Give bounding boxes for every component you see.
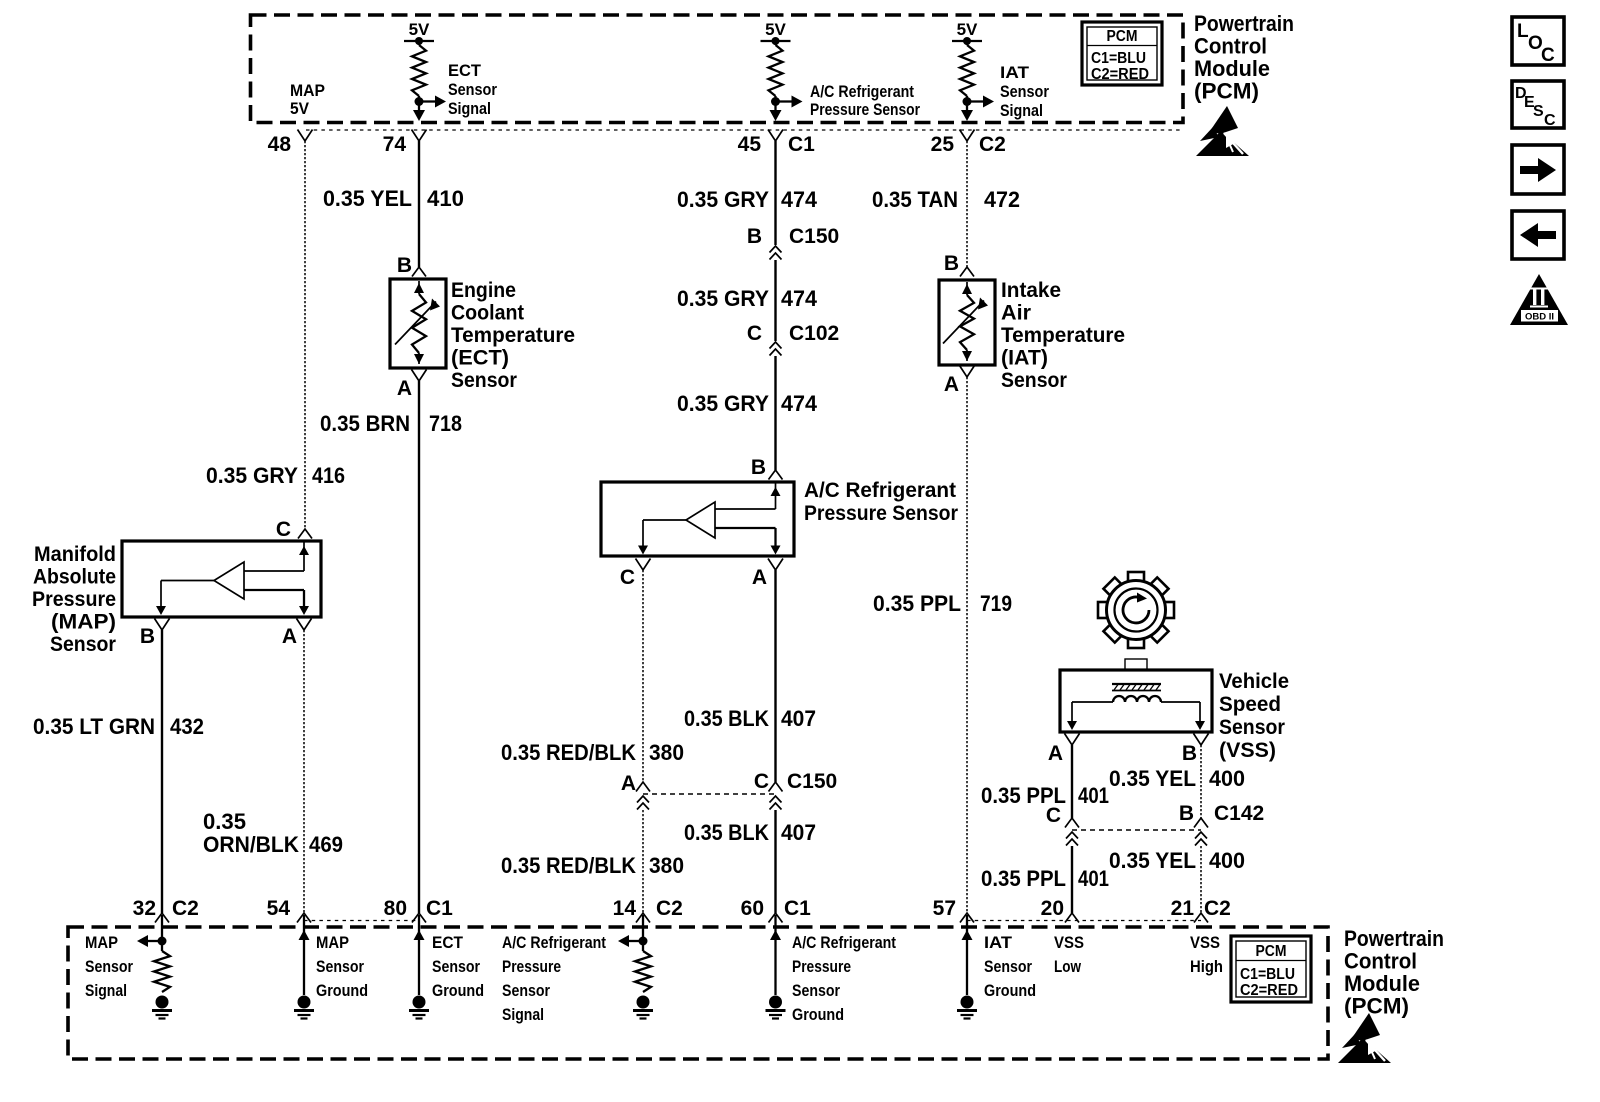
svg-text:Vehicle: Vehicle bbox=[1219, 670, 1289, 693]
svg-text:Module: Module bbox=[1194, 56, 1270, 81]
svg-text:0.35 GRY: 0.35 GRY bbox=[677, 187, 769, 212]
svg-text:C150: C150 bbox=[789, 225, 839, 248]
svg-text:474: 474 bbox=[781, 286, 818, 311]
label 0.35 GRY 416 bbox=[206, 463, 345, 488]
pin 60 C1 A/C ground bbox=[741, 897, 812, 923]
svg-text:C2: C2 bbox=[172, 897, 199, 920]
label ECT Sensor Ground bbox=[432, 934, 484, 1000]
svg-text:B: B bbox=[140, 625, 155, 648]
svg-text:Signal: Signal bbox=[448, 100, 491, 118]
label 0.35 PPL 401 lower bbox=[981, 866, 1109, 891]
bottom PCM module box (dashed) bbox=[68, 927, 1328, 1059]
svg-text:A/C Refrigerant: A/C Refrigerant bbox=[502, 934, 606, 952]
svg-text:(PCM): (PCM) bbox=[1194, 79, 1259, 104]
svg-text:A: A bbox=[621, 772, 636, 795]
wire 472 TAN IAT signal bbox=[966, 141, 968, 267]
svg-text:474: 474 bbox=[781, 391, 818, 416]
svg-text:Air: Air bbox=[1001, 302, 1031, 325]
wire 400 YEL upper bbox=[1200, 745, 1202, 818]
svg-text:C2=RED: C2=RED bbox=[1091, 66, 1149, 83]
wire 401 PPL lower bbox=[1071, 846, 1073, 913]
svg-text:400: 400 bbox=[1209, 848, 1245, 873]
label 0.35 GRY 474 middle bbox=[677, 286, 818, 311]
label Intake Air Temperature IAT Sensor bbox=[1001, 279, 1125, 392]
svg-text:MAP: MAP bbox=[85, 934, 118, 952]
svg-text:C1=BLU: C1=BLU bbox=[1091, 50, 1146, 67]
svg-text:469: 469 bbox=[309, 832, 343, 857]
label A/C Refrigerant Pressure Sensor bbox=[810, 83, 920, 119]
wire 474 GRY segment 2 bbox=[774, 260, 776, 341]
wire 474 GRY segment 1 bbox=[774, 141, 776, 245]
node A MAP connector bbox=[282, 619, 312, 649]
thermistor ECT bbox=[395, 281, 440, 364]
svg-text:C150: C150 bbox=[787, 770, 837, 793]
svg-text:(ECT): (ECT) bbox=[451, 347, 509, 370]
svg-text:A/C Refrigerant: A/C Refrigerant bbox=[804, 479, 956, 502]
svg-text:0.35 RED/BLK: 0.35 RED/BLK bbox=[501, 853, 636, 878]
VSS reluctor gear wheel bbox=[1098, 572, 1174, 648]
svg-text:Low: Low bbox=[1054, 958, 1081, 976]
svg-text:32: 32 bbox=[133, 897, 156, 920]
label 0.35 PPL 401 upper bbox=[981, 783, 1109, 808]
vehicle speed sensor box bbox=[1060, 670, 1212, 732]
svg-text:(IAT): (IAT) bbox=[1001, 347, 1048, 370]
label Engine Coolant Temperature ECT Sensor bbox=[451, 279, 575, 392]
label 0.35 TAN 472 bbox=[872, 187, 1020, 212]
svg-text:Pressure Sensor: Pressure Sensor bbox=[810, 101, 920, 119]
svg-text:Powertrain: Powertrain bbox=[1194, 11, 1294, 36]
svg-text:Sensor: Sensor bbox=[792, 982, 840, 1000]
svg-text:Temperature: Temperature bbox=[1001, 324, 1125, 347]
wire 432 LT GRN MAP signal bbox=[161, 630, 163, 913]
wire 407 BLK upper bbox=[774, 570, 776, 782]
node B MAP connector bbox=[140, 619, 170, 649]
svg-text:A: A bbox=[282, 625, 297, 648]
svg-text:Pressure: Pressure bbox=[792, 958, 851, 976]
svg-text:432: 432 bbox=[170, 714, 204, 739]
svg-text:ECT: ECT bbox=[432, 934, 463, 952]
wire 474 GRY segment 3 bbox=[774, 356, 776, 470]
label 0.35 BRN 718 bbox=[320, 411, 462, 436]
wire 719 PPL IAT ground bbox=[966, 377, 968, 913]
pin 74 ECT signal bbox=[383, 130, 427, 157]
node C A/C sensor connector bbox=[620, 559, 651, 590]
label 0.35 GRY 474 upper bbox=[677, 187, 818, 212]
label Powertrain Control Module PCM bottom right bbox=[1344, 926, 1444, 1019]
wire 407 BLK lower bbox=[774, 810, 776, 913]
node A A/C sensor connector bbox=[752, 559, 783, 590]
svg-text:ORN/BLK: ORN/BLK bbox=[203, 832, 299, 857]
svg-text:C2: C2 bbox=[1204, 897, 1231, 920]
connector C150 pin B inline bbox=[747, 225, 839, 260]
svg-text:0.35 PPL: 0.35 PPL bbox=[873, 591, 961, 616]
svg-text:0.35 RED/BLK: 0.35 RED/BLK bbox=[501, 740, 636, 765]
label 0.35 GRY 474 lower bbox=[677, 391, 818, 416]
pin 21 C2 VSS high bbox=[1171, 897, 1231, 923]
svg-text:C102: C102 bbox=[789, 322, 839, 345]
IAT sensor ground termination bbox=[957, 915, 977, 1019]
A/C signal termination resistor bbox=[618, 915, 653, 1019]
svg-text:B: B bbox=[1179, 802, 1194, 825]
ESD notice symbol bottom bbox=[1338, 1013, 1391, 1063]
svg-text:A: A bbox=[1048, 742, 1063, 765]
svg-text:C1: C1 bbox=[788, 133, 815, 156]
MAP sensor box bbox=[122, 541, 321, 617]
svg-text:0.35: 0.35 bbox=[203, 809, 246, 834]
svg-text:Coolant: Coolant bbox=[451, 302, 524, 325]
svg-text:Sensor: Sensor bbox=[85, 958, 133, 976]
svg-text:VSS: VSS bbox=[1190, 934, 1220, 952]
svg-text:C2: C2 bbox=[656, 897, 683, 920]
svg-text:OBD II: OBD II bbox=[1525, 312, 1554, 323]
label MAP Sensor Signal bbox=[85, 934, 133, 1000]
ECT sensor box bbox=[390, 279, 446, 368]
svg-text:380: 380 bbox=[649, 740, 684, 765]
svg-text:B: B bbox=[944, 252, 959, 275]
label 0.35 LT GRN 432 bbox=[33, 714, 204, 739]
icon back arrow button bbox=[1512, 211, 1564, 259]
svg-text:C1: C1 bbox=[426, 897, 453, 920]
svg-text:0.35 GRY: 0.35 GRY bbox=[206, 463, 298, 488]
svg-text:Ground: Ground bbox=[316, 982, 368, 1000]
label MAP Sensor Ground bbox=[316, 934, 368, 1000]
pin 54 MAP sensor ground bbox=[267, 897, 311, 923]
node B A/C sensor connector bbox=[751, 456, 783, 480]
resistor IAT pull-up 5V bbox=[952, 20, 994, 121]
svg-text:380: 380 bbox=[649, 853, 684, 878]
svg-text:C2: C2 bbox=[979, 133, 1006, 156]
pin 14 C2 A/C signal bbox=[613, 897, 683, 923]
svg-text:MAP: MAP bbox=[316, 934, 349, 952]
svg-text:0.35 LT GRN: 0.35 LT GRN bbox=[33, 714, 155, 739]
svg-text:Sensor: Sensor bbox=[984, 958, 1032, 976]
svg-text:A: A bbox=[752, 566, 767, 589]
node B VSS connector bbox=[1182, 734, 1209, 766]
svg-text:(PCM): (PCM) bbox=[1344, 994, 1409, 1019]
node B IAT connector bbox=[944, 252, 974, 277]
svg-text:48: 48 bbox=[268, 133, 292, 156]
svg-text:45: 45 bbox=[738, 133, 762, 156]
svg-text:Sensor: Sensor bbox=[432, 958, 480, 976]
label IAT Sensor Signal bbox=[1000, 64, 1050, 120]
node C MAP connector bbox=[276, 518, 312, 541]
svg-text:Engine: Engine bbox=[451, 279, 516, 302]
svg-text:407: 407 bbox=[781, 706, 816, 731]
svg-text:Sensor: Sensor bbox=[50, 633, 116, 656]
A/C sensor internal amplifier bbox=[638, 482, 781, 555]
svg-text:C: C bbox=[1544, 112, 1556, 129]
svg-text:0.35 YEL: 0.35 YEL bbox=[1109, 766, 1196, 791]
label 0.35 YEL 400 lower bbox=[1109, 848, 1245, 873]
wire 380 RED/BLK lower bbox=[642, 810, 644, 913]
A/C refrigerant pressure sensor box bbox=[601, 482, 794, 556]
svg-text:Signal: Signal bbox=[1000, 102, 1043, 120]
svg-text:C: C bbox=[620, 566, 635, 589]
label A/C Refrigerant Pressure Sensor Ground bbox=[792, 934, 896, 1024]
svg-text:Manifold: Manifold bbox=[34, 543, 116, 566]
svg-text:Pressure Sensor: Pressure Sensor bbox=[804, 502, 958, 525]
svg-text:0.35 BLK: 0.35 BLK bbox=[684, 820, 769, 845]
label 0.35 ORN/BLK 469 bbox=[203, 809, 343, 857]
svg-text:C: C bbox=[1541, 45, 1555, 66]
svg-text:B: B bbox=[747, 225, 762, 248]
pin 45 C1 A/C pressure signal bbox=[738, 130, 816, 157]
svg-text:Sensor: Sensor bbox=[1219, 716, 1285, 739]
svg-text:Intake: Intake bbox=[1001, 279, 1061, 302]
svg-text:472: 472 bbox=[984, 187, 1020, 212]
svg-text:MAP: MAP bbox=[290, 82, 325, 100]
svg-text:Sensor: Sensor bbox=[1000, 83, 1050, 101]
pin 25 C2 IAT signal bbox=[931, 130, 1006, 157]
svg-text:5V: 5V bbox=[765, 20, 786, 39]
svg-text:5V: 5V bbox=[290, 100, 309, 118]
pin 57 IAT sensor ground bbox=[933, 897, 974, 923]
MAP sensor internal amplifier bbox=[156, 541, 309, 615]
label 0.35 BLK 407 upper bbox=[684, 706, 816, 731]
MAP sensor signal termination resistor bbox=[137, 915, 172, 1019]
node A VSS connector bbox=[1048, 734, 1080, 766]
svg-text:Control: Control bbox=[1194, 34, 1267, 59]
svg-text:401: 401 bbox=[1078, 866, 1109, 891]
svg-text:(MAP): (MAP) bbox=[51, 611, 116, 634]
connector C102 pin C inline bbox=[747, 322, 839, 356]
label 0.35 YEL 400 upper bbox=[1109, 766, 1245, 791]
icon LOC button bbox=[1512, 17, 1564, 66]
label MAP 5V bbox=[290, 82, 325, 118]
pin 32 C2 MAP sensor signal bbox=[133, 897, 199, 923]
svg-text:Sensor: Sensor bbox=[451, 369, 517, 392]
svg-text:Sensor: Sensor bbox=[316, 958, 364, 976]
svg-text:74: 74 bbox=[383, 133, 407, 156]
svg-text:401: 401 bbox=[1078, 783, 1109, 808]
svg-text:Pressure: Pressure bbox=[32, 588, 116, 611]
svg-text:PCM: PCM bbox=[1107, 28, 1138, 45]
label VSS Low bbox=[1054, 934, 1084, 976]
svg-text:C: C bbox=[747, 322, 762, 345]
svg-text:C142: C142 bbox=[1214, 802, 1264, 825]
svg-text:0.35 BLK: 0.35 BLK bbox=[684, 706, 769, 731]
A/C sensor ground termination bbox=[766, 915, 786, 1019]
svg-text:0.35 GRY: 0.35 GRY bbox=[677, 286, 769, 311]
svg-text:Signal: Signal bbox=[502, 1006, 544, 1024]
svg-text:Pressure: Pressure bbox=[502, 958, 561, 976]
svg-text:5V: 5V bbox=[409, 20, 430, 39]
label Manifold Absolute Pressure MAP Sensor bbox=[32, 543, 116, 656]
PCM connector legend box bottom bbox=[1231, 936, 1311, 1002]
svg-text:A: A bbox=[397, 377, 412, 400]
wire 718 BRN ECT ground bbox=[418, 381, 420, 913]
svg-text:416: 416 bbox=[312, 463, 345, 488]
svg-text:VSS: VSS bbox=[1054, 934, 1084, 952]
connector C142 dashed link bbox=[1046, 802, 1264, 846]
svg-text:Sensor: Sensor bbox=[1001, 369, 1067, 392]
svg-text:A: A bbox=[944, 373, 959, 396]
node B ECT connector bbox=[397, 254, 426, 277]
wire 400 YEL lower bbox=[1200, 846, 1202, 913]
svg-text:719: 719 bbox=[980, 591, 1012, 616]
label IAT Sensor Ground bbox=[984, 934, 1036, 1000]
label ECT Sensor Signal bbox=[448, 62, 498, 118]
svg-text:B: B bbox=[751, 456, 766, 479]
svg-text:B: B bbox=[1182, 742, 1197, 765]
wire 401 PPL upper bbox=[1071, 745, 1073, 818]
label 0.35 RED/BLK 380 lower bbox=[501, 853, 684, 878]
svg-text:14: 14 bbox=[613, 897, 637, 920]
svg-text:A/C Refrigerant: A/C Refrigerant bbox=[810, 83, 914, 101]
svg-text:80: 80 bbox=[384, 897, 407, 920]
label 0.35 PPL 719 bbox=[873, 591, 1012, 616]
svg-text:Control: Control bbox=[1344, 949, 1417, 974]
svg-text:54: 54 bbox=[267, 897, 291, 920]
svg-text:Sensor: Sensor bbox=[502, 982, 550, 1000]
svg-text:Absolute: Absolute bbox=[33, 566, 116, 589]
svg-text:C2=RED: C2=RED bbox=[1240, 982, 1298, 999]
thermistor IAT bbox=[943, 282, 988, 361]
svg-text:IAT: IAT bbox=[984, 934, 1012, 952]
svg-text:20: 20 bbox=[1041, 897, 1064, 920]
pin 20 VSS low bbox=[1041, 897, 1079, 923]
label VSS High bbox=[1190, 934, 1223, 976]
label A/C Refrigerant Pressure Sensor Signal bbox=[502, 934, 606, 1024]
MAP sensor ground termination bbox=[294, 915, 314, 1019]
bottom connector line right bbox=[967, 920, 1201, 922]
pin 48 MAP 5V ref bbox=[268, 130, 313, 157]
svg-text:C1: C1 bbox=[784, 897, 811, 920]
bottom connector line left bbox=[304, 920, 419, 922]
svg-text:60: 60 bbox=[741, 897, 764, 920]
icon forward arrow button bbox=[1512, 145, 1564, 194]
ESD notice symbol top bbox=[1196, 106, 1249, 156]
wire 416 GRY MAP 5V ref bbox=[304, 141, 306, 529]
svg-text:0.35 BRN: 0.35 BRN bbox=[320, 411, 410, 436]
svg-text:25: 25 bbox=[931, 133, 955, 156]
svg-text:Sensor: Sensor bbox=[448, 81, 498, 99]
resistor A/C pressure pull-up 5V bbox=[761, 20, 803, 121]
ECT sensor ground termination bbox=[409, 915, 429, 1019]
pin 80 C1 ECT sensor ground bbox=[384, 897, 454, 923]
resistor ECT pull-up 5V bbox=[404, 20, 446, 121]
svg-text:Temperature: Temperature bbox=[451, 324, 575, 347]
svg-text:Ground: Ground bbox=[792, 1006, 844, 1024]
svg-text:57: 57 bbox=[933, 897, 956, 920]
icon OBD II triangle bbox=[1510, 274, 1568, 325]
svg-text:0.35 GRY: 0.35 GRY bbox=[677, 391, 769, 416]
svg-text:Powertrain: Powertrain bbox=[1344, 926, 1444, 951]
svg-text:S: S bbox=[1533, 103, 1544, 120]
svg-text:Module: Module bbox=[1344, 971, 1420, 996]
label Powertrain Control Module PCM top right bbox=[1194, 11, 1294, 104]
svg-text:0.35 YEL: 0.35 YEL bbox=[1109, 848, 1196, 873]
label Vehicle Speed Sensor VSS bbox=[1219, 670, 1289, 762]
svg-text:C: C bbox=[754, 770, 769, 793]
node A IAT connector bbox=[944, 366, 975, 397]
svg-text:410: 410 bbox=[427, 186, 464, 211]
svg-text:High: High bbox=[1190, 958, 1223, 976]
svg-text:C1=BLU: C1=BLU bbox=[1240, 966, 1295, 983]
node A ECT connector bbox=[397, 370, 427, 401]
svg-text:400: 400 bbox=[1209, 766, 1245, 791]
PCM connector legend box top bbox=[1082, 22, 1162, 85]
svg-text:Signal: Signal bbox=[85, 982, 127, 1000]
svg-text:Speed: Speed bbox=[1219, 693, 1281, 716]
svg-text:PCM: PCM bbox=[1256, 943, 1287, 960]
svg-text:(VSS): (VSS) bbox=[1219, 739, 1276, 762]
svg-text:5V: 5V bbox=[957, 20, 978, 39]
IAT sensor box bbox=[939, 280, 995, 365]
icon DESC button bbox=[1512, 81, 1564, 129]
svg-text:0.35 YEL: 0.35 YEL bbox=[323, 186, 412, 211]
svg-text:0.35 TAN: 0.35 TAN bbox=[872, 187, 958, 212]
svg-text:Ground: Ground bbox=[432, 982, 484, 1000]
svg-text:ECT: ECT bbox=[448, 62, 481, 80]
wire 410 YEL ECT signal bbox=[418, 141, 420, 267]
svg-text:21: 21 bbox=[1171, 897, 1195, 920]
svg-text:474: 474 bbox=[781, 187, 818, 212]
svg-text:0.35 PPL: 0.35 PPL bbox=[981, 866, 1066, 891]
label 0.35 BLK 407 lower bbox=[684, 820, 816, 845]
top PCM connector line bbox=[306, 129, 1183, 131]
wire 469 ORN/BLK MAP ground bbox=[303, 630, 305, 913]
svg-text:IAT: IAT bbox=[1000, 64, 1029, 82]
label 0.35 RED/BLK 380 upper bbox=[501, 740, 684, 765]
svg-text:C: C bbox=[1046, 804, 1061, 827]
svg-text:718: 718 bbox=[429, 411, 462, 436]
label 0.35 YEL 410 bbox=[323, 186, 464, 211]
label A/C Refrigerant Pressure Sensor bbox=[804, 479, 958, 525]
svg-text:Ground: Ground bbox=[984, 982, 1036, 1000]
svg-text:B: B bbox=[397, 254, 412, 277]
VSS pickup coil bbox=[1067, 684, 1205, 730]
VSS sensor neck bbox=[1125, 659, 1147, 670]
wire 380 RED/BLK upper bbox=[642, 570, 644, 782]
svg-text:C: C bbox=[276, 518, 291, 541]
top PCM module box (dashed) bbox=[251, 15, 1184, 123]
svg-text:407: 407 bbox=[781, 820, 816, 845]
svg-text:A/C Refrigerant: A/C Refrigerant bbox=[792, 934, 896, 952]
connector C150 dashed link bbox=[621, 770, 837, 810]
